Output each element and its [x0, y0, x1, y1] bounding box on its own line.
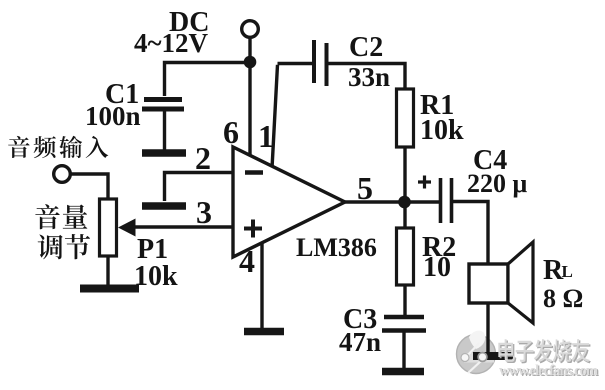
- svg-text:www.elecfans.com: www.elecfans.com: [499, 363, 598, 379]
- capacitor C4: [441, 178, 452, 223]
- svg-text:33n: 33n: [348, 62, 390, 92]
- wire pin 2 to ground: [165, 173, 234, 202]
- svg-text:3: 3: [196, 194, 212, 230]
- wire input terminal to P1: [71, 174, 109, 199]
- ground pin 4: [244, 328, 284, 336]
- speaker RL cone: [508, 242, 533, 323]
- wire pin 3 to P1 wiper: [135, 225, 233, 228]
- terminal audio input: [54, 166, 71, 183]
- watermark url: [499, 363, 599, 380]
- svg-text:8 Ω: 8 Ω: [543, 284, 583, 313]
- watermark logo circle (elecfans): [457, 331, 496, 374]
- wire pin 4 to ground: [260, 242, 263, 328]
- svg-text:6: 6: [223, 114, 239, 150]
- potentiometer P1 body: [100, 199, 117, 256]
- wire DC terminal to supply junction: [248, 38, 251, 63]
- label audio input (Chinese): [8, 136, 108, 158]
- wire supply rail to C1: [165, 63, 247, 97]
- label volume (Chinese line 1): [35, 204, 87, 229]
- resistor R2: [397, 228, 414, 285]
- resistor R1: [397, 89, 414, 147]
- wire pin 6 supply to op-amp: [248, 62, 251, 157]
- capacitor C2: [314, 40, 327, 86]
- ground C1: [142, 149, 186, 157]
- wire pin 1 to C2: [272, 64, 312, 169]
- ground speaker: [473, 352, 513, 360]
- wire C4 to speaker: [453, 202, 488, 265]
- svg-text:10k: 10k: [134, 261, 178, 292]
- wire C3 to ground: [402, 333, 405, 370]
- svg-text:220 μ: 220 μ: [467, 169, 528, 198]
- wire speaker to ground: [486, 303, 489, 354]
- inverting input minus symbol: [245, 170, 263, 175]
- capacitor C3: [382, 317, 426, 331]
- svg-text:5: 5: [357, 170, 373, 206]
- junction output node: [398, 196, 411, 209]
- watermark logo pad over ground: [478, 353, 487, 362]
- svg-text:100n: 100n: [85, 101, 141, 131]
- op-amp U1 LM386: [233, 147, 345, 257]
- svg-text:L: L: [562, 262, 573, 281]
- junction supply node: [244, 56, 257, 69]
- wire output node to R2: [403, 206, 406, 228]
- ground P1: [80, 285, 139, 293]
- wire R1 to output node: [403, 147, 406, 202]
- svg-text:10: 10: [423, 252, 451, 283]
- svg-text:47n: 47n: [339, 327, 381, 357]
- svg-text:C2: C2: [349, 32, 383, 63]
- capacitor C4 polarity plus: [418, 176, 431, 189]
- wire pin 5 output: [345, 200, 439, 203]
- non-inverting input plus symbol: [244, 220, 262, 238]
- speaker RL body: [469, 264, 508, 303]
- watermark text elecfans (Chinese): [498, 339, 591, 363]
- potentiometer P1 wiper arrow: [118, 219, 136, 237]
- wire R2 to C3: [403, 285, 406, 315]
- ground C3: [382, 368, 424, 376]
- svg-text:2: 2: [195, 140, 211, 176]
- wire P1 to ground: [106, 256, 109, 285]
- terminal DC supply: [242, 21, 259, 38]
- svg-text:10k: 10k: [420, 115, 464, 146]
- ground pin 2: [142, 202, 186, 210]
- svg-text:4~12V: 4~12V: [134, 28, 209, 58]
- label RL: [543, 255, 573, 286]
- capacitor C1: [142, 100, 184, 110]
- label adjust (Chinese line 2): [38, 234, 90, 259]
- wire C1 to ground: [163, 111, 166, 150]
- svg-text:LM386: LM386: [296, 233, 377, 262]
- svg-text:4: 4: [239, 243, 255, 279]
- wire C2 to R1: [328, 64, 405, 91]
- svg-text:1: 1: [258, 118, 274, 154]
